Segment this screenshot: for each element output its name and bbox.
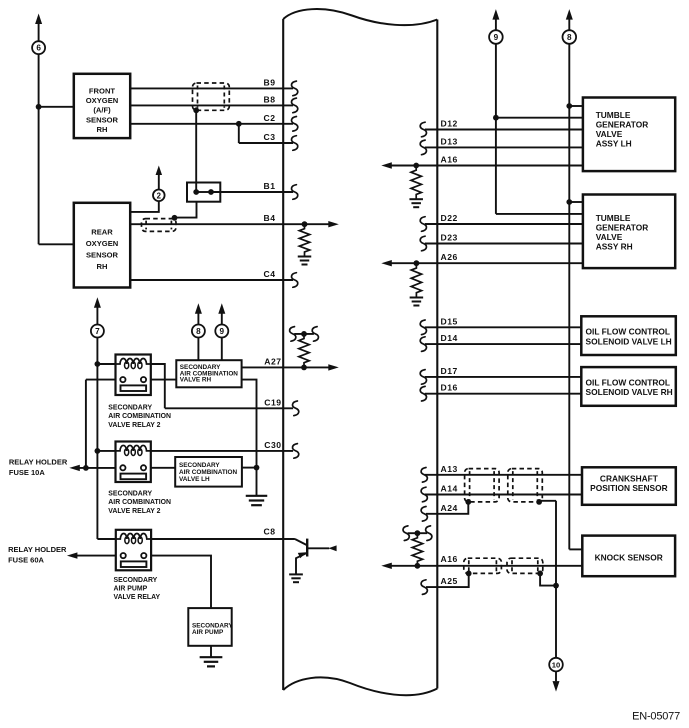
svg-text:EN-05077: EN-05077 <box>632 710 680 722</box>
ECM band torn bottom edge <box>283 677 437 695</box>
wire A16 knock <box>391 565 583 567</box>
wire break C30 <box>293 444 299 459</box>
svg-text:REAR: REAR <box>91 228 113 237</box>
svg-text:RELAY HOLDER: RELAY HOLDER <box>9 458 68 467</box>
svg-text:C4: C4 <box>264 269 276 279</box>
shield knock left <box>464 558 502 573</box>
arrow A26 (left) <box>381 260 392 266</box>
node tumble RH feed 8 <box>566 199 572 205</box>
transistor Q1 collector diagonal <box>295 539 307 545</box>
arrow A27 (right) <box>328 364 339 370</box>
arrow A16 (left) <box>381 162 392 168</box>
svg-text:OIL FLOW CONTROL: OIL FLOW CONTROL <box>586 327 671 337</box>
svg-text:FRONT: FRONT <box>89 87 116 96</box>
svg-text:9: 9 <box>494 33 499 42</box>
arrow fuse 60A (left) <box>67 552 78 558</box>
wire D15 <box>425 326 582 328</box>
circle label 2 <box>153 190 165 202</box>
wire break C3 <box>292 136 298 151</box>
wire 8 to tumble RH <box>569 201 583 203</box>
wire knock drain to 10-line <box>540 573 556 585</box>
wire C2 to C3 drop <box>238 124 240 143</box>
wire air pump to ground <box>210 646 212 657</box>
ground below B4 resistor <box>298 256 312 258</box>
oil flow control solenoid valve LH box <box>581 316 676 355</box>
arrow to 9 (up) <box>218 303 225 314</box>
svg-text:VALVE RELAY: VALVE RELAY <box>114 594 161 601</box>
node drains join <box>553 583 559 589</box>
wire D12 <box>425 129 583 131</box>
svg-text:A24: A24 <box>441 503 458 513</box>
svg-text:VALVE RH: VALVE RH <box>180 377 212 384</box>
svg-text:D17: D17 <box>441 366 458 376</box>
ECM band torn top edge <box>283 9 437 25</box>
svg-text:VALVE RELAY 2: VALVE RELAY 2 <box>108 508 160 515</box>
arrow to 8 (up) <box>195 303 202 314</box>
node crank shield drain right <box>536 499 542 505</box>
node tumble LH feed 9 <box>493 115 499 121</box>
wire 6 vertical <box>38 54 40 244</box>
oil flow control solenoid valve RH box <box>581 367 676 406</box>
svg-text:SECONDARY: SECONDARY <box>108 491 152 498</box>
node front sensor feed <box>36 104 42 110</box>
rear oxygen sensor RH box <box>74 203 130 288</box>
wire valve LH to ground node <box>242 467 257 469</box>
node knock shield drain right <box>537 571 543 577</box>
shield crank pair right <box>508 469 543 502</box>
wire A27 <box>242 366 330 368</box>
wire to relay1 coil <box>97 363 115 365</box>
svg-text:A13: A13 <box>441 464 458 474</box>
svg-text:C19: C19 <box>264 397 281 407</box>
wire C19 <box>165 407 293 409</box>
arrow B4 (right) <box>328 221 339 227</box>
transistor Q1 base wire <box>307 547 329 549</box>
node A26 pulldown <box>414 260 420 266</box>
svg-text:FUSE 60A: FUSE 60A <box>8 555 44 564</box>
svg-text:D14: D14 <box>441 333 458 343</box>
wire break A13 <box>421 468 427 483</box>
wire 8 to tumble LH <box>569 105 583 107</box>
node crank shield drain left <box>465 499 471 505</box>
wire pullup rail <box>294 333 314 335</box>
svg-text:(A/F): (A/F) <box>93 106 111 115</box>
tumble generator valve assy RH box <box>583 195 675 269</box>
circle label 6 <box>32 41 45 54</box>
node knock pullup top <box>415 530 421 536</box>
ECM harness band left edge (wire) <box>282 19 284 690</box>
shield knock right <box>507 558 543 573</box>
wire to fuse 10A <box>79 467 116 469</box>
joint internal wire <box>196 191 211 193</box>
wire 7 vertical <box>96 338 98 540</box>
svg-text:A16: A16 <box>441 155 458 165</box>
svg-text:10: 10 <box>552 661 560 670</box>
svg-text:TUMBLE: TUMBLE <box>596 110 631 120</box>
svg-text:VALVE RELAY 2: VALVE RELAY 2 <box>108 422 160 429</box>
front oxygen (A/F) sensor RH box <box>74 74 130 138</box>
wire A25 drain <box>426 573 469 587</box>
node C2/C3 split <box>236 121 242 127</box>
svg-text:KNOCK SENSOR: KNOCK SENSOR <box>595 553 663 563</box>
svg-text:A16: A16 <box>441 554 458 564</box>
ground of air pump <box>200 656 223 658</box>
wire rear sensor to 2 <box>130 201 159 212</box>
wire relay2 contact to valve LH <box>151 467 175 469</box>
wire break C2 <box>292 117 298 132</box>
arrow A16 knock (left) <box>381 563 392 569</box>
relay K3 secondary air pump valve relay <box>116 530 151 571</box>
wire B8 <box>130 104 293 106</box>
wire break A25 <box>421 580 427 595</box>
wire to fuse 60A <box>77 555 116 557</box>
secondary air combination valve LH box <box>175 457 242 487</box>
svg-text:ASSY LH: ASSY LH <box>596 139 632 149</box>
wire break C19 <box>293 401 299 416</box>
wire break D22 <box>420 217 426 232</box>
svg-text:SENSOR: SENSOR <box>86 115 119 124</box>
wire break B1 <box>292 185 298 200</box>
wire C3 <box>239 142 293 144</box>
wire D14 <box>425 343 582 345</box>
svg-text:SOLENOID VALVE LH: SOLENOID VALVE LH <box>586 336 672 346</box>
svg-text:C8: C8 <box>264 527 276 537</box>
wire A14 <box>425 494 582 496</box>
relay K2 secondary air combination valve relay 2 <box>116 442 151 483</box>
svg-text:D12: D12 <box>441 119 458 129</box>
svg-text:ASSY RH: ASSY RH <box>596 242 633 252</box>
circle label 10 <box>549 658 563 672</box>
svg-text:AIR COMBINATION: AIR COMBINATION <box>179 469 237 476</box>
arrow to 6 (up) <box>35 14 42 25</box>
wire break D16 <box>420 386 426 401</box>
wire 9 vertical <box>495 44 497 214</box>
wire B1 <box>211 191 293 193</box>
svg-text:B4: B4 <box>264 213 276 223</box>
node valves ground join <box>254 465 260 471</box>
arrow into transistor base (left) <box>328 545 336 551</box>
wire relay1 coil to C19 drop <box>151 364 165 408</box>
svg-text:TUMBLE: TUMBLE <box>596 213 631 223</box>
wire relay1 contact left <box>86 379 116 381</box>
wire D22 <box>425 223 583 225</box>
wire C30 <box>151 450 293 452</box>
svg-text:VALVE LH: VALVE LH <box>179 476 210 483</box>
circle label 9 top <box>489 30 503 44</box>
wire break D17 <box>420 370 426 385</box>
pin node right <box>208 189 214 195</box>
svg-text:AIR PUMP: AIR PUMP <box>192 629 224 636</box>
node A27 resistor <box>301 365 307 371</box>
svg-text:D13: D13 <box>441 136 458 146</box>
svg-text:OXYGEN: OXYGEN <box>86 96 119 105</box>
svg-text:SECONDARY: SECONDARY <box>179 462 220 469</box>
svg-text:POSITION SENSOR: POSITION SENSOR <box>590 483 667 493</box>
arrow to 7 (up) <box>94 297 101 308</box>
node B4 pulldown <box>302 221 308 227</box>
svg-text:C2: C2 <box>264 113 276 123</box>
wire fuse drop <box>85 380 87 468</box>
pin node left <box>193 189 199 195</box>
connector joint box <box>187 183 220 202</box>
svg-text:GENERATOR: GENERATOR <box>596 120 649 130</box>
relay K1 secondary air combination valve relay 2 <box>116 355 151 396</box>
ground below A26 resistor <box>410 297 424 299</box>
arrow to 10 (down) <box>553 681 560 692</box>
resistor A26 pulldown <box>411 263 421 297</box>
svg-text:9: 9 <box>220 327 225 336</box>
wire B9 <box>130 87 293 89</box>
wire break D12 <box>420 122 426 137</box>
wire break A24 <box>421 507 427 522</box>
ground below A16 resistor <box>409 198 423 200</box>
svg-text:8: 8 <box>567 33 572 42</box>
ECM harness band right edge (wire) <box>436 20 438 689</box>
wire break C4 <box>292 273 298 288</box>
svg-text:A26: A26 <box>441 252 458 262</box>
wire A24 drain <box>426 502 468 514</box>
shield drain wire down <box>195 110 197 192</box>
wire C2 <box>130 123 293 125</box>
svg-text:VALVE: VALVE <box>596 129 623 139</box>
svg-text:SOLENOID VALVE RH: SOLENOID VALVE RH <box>586 387 673 397</box>
svg-text:AIR COMBINATION: AIR COMBINATION <box>108 413 171 420</box>
node fuse 10A join <box>83 465 89 471</box>
svg-text:SECONDARY: SECONDARY <box>108 405 152 412</box>
svg-text:D15: D15 <box>441 316 458 326</box>
wire relay3 contact to air pump <box>151 556 211 609</box>
svg-text:8: 8 <box>196 327 201 336</box>
wire 9 to valve RH <box>221 338 223 361</box>
wire crank drain to 10-line <box>539 501 556 502</box>
node A16 knock resistor <box>415 563 421 569</box>
wire break A14 <box>421 487 427 502</box>
circle label 9 <box>215 325 228 338</box>
svg-text:FUSE 10A: FUSE 10A <box>9 468 45 477</box>
transistor Q1 base bar <box>306 539 308 557</box>
wire below circle 10 <box>555 671 557 681</box>
circle label 7 <box>91 325 104 338</box>
resistor A27 pullup <box>299 334 309 368</box>
wire A26 <box>391 262 583 264</box>
wire break B9 <box>292 81 298 96</box>
ground of transistor <box>289 573 303 575</box>
svg-text:A25: A25 <box>441 576 458 586</box>
wire D23 <box>425 243 583 245</box>
arrow fuse 10A (left) <box>69 465 80 471</box>
wire to rear oxygen sensor <box>39 243 74 245</box>
svg-text:2: 2 <box>157 191 162 200</box>
crankshaft position sensor box <box>582 467 676 505</box>
node shield drain B8 <box>193 107 199 113</box>
wire valve RH lower to ground drop <box>242 380 257 496</box>
wire 8 to valve RH <box>197 338 199 361</box>
transistor Q1 emitter arrow <box>298 552 307 558</box>
svg-text:7: 7 <box>95 327 100 336</box>
svg-text:RH: RH <box>97 262 108 271</box>
circle label 8 <box>192 325 205 338</box>
svg-text:D23: D23 <box>441 233 458 243</box>
svg-text:A27: A27 <box>264 356 281 366</box>
wire A13 <box>425 474 582 476</box>
wire break knock rail left <box>403 526 409 541</box>
wire B4 <box>130 223 329 225</box>
node knock shield drain left <box>466 571 472 577</box>
wire break rail right <box>312 327 318 342</box>
svg-text:A14: A14 <box>441 484 458 494</box>
transistor Q1 emitter <box>296 553 307 574</box>
arrow to 9 top (up) <box>492 9 499 20</box>
svg-text:6: 6 <box>36 44 41 53</box>
resistor A16 pulldown <box>411 166 421 200</box>
node A27 pullup top <box>301 331 307 337</box>
tumble generator valve assy LH box <box>583 98 675 172</box>
arrow to 8 top (up) <box>566 9 573 20</box>
wire A16 tumble <box>391 165 583 167</box>
svg-text:D16: D16 <box>441 383 458 393</box>
svg-text:RH: RH <box>97 125 108 134</box>
resistor A16 knock pullup <box>412 533 422 566</box>
wire 8 vertical <box>568 44 570 550</box>
svg-text:B8: B8 <box>264 94 276 104</box>
svg-text:RELAY HOLDER: RELAY HOLDER <box>8 545 67 554</box>
wire D16 <box>425 393 582 395</box>
shield drain below joint <box>175 202 197 218</box>
ground of valves <box>246 495 268 497</box>
wire break D15 <box>420 320 426 335</box>
svg-text:B1: B1 <box>264 181 276 191</box>
wire 9 to tumble RH <box>496 213 583 215</box>
wire relay1 contact to valve RH <box>151 379 177 381</box>
wire C8 <box>151 538 295 540</box>
wire C30 through relay2 coil <box>97 450 115 452</box>
knock sensor box <box>582 536 675 577</box>
wire break D13 <box>420 140 426 155</box>
svg-text:C30: C30 <box>264 440 281 450</box>
node A16 pulldown <box>413 163 419 169</box>
wire knock pullup rail <box>408 532 428 534</box>
wire D17 <box>425 376 582 378</box>
wire 9 to tumble LH <box>496 117 583 119</box>
svg-text:AIR COMBINATION: AIR COMBINATION <box>108 499 171 506</box>
shield around B9/B8 <box>193 83 230 110</box>
svg-text:GENERATOR: GENERATOR <box>596 223 649 233</box>
node relay1 coil feed <box>95 361 101 367</box>
svg-text:SECONDARY: SECONDARY <box>114 577 158 584</box>
wire break rail left <box>290 327 296 342</box>
svg-text:OIL FLOW CONTROL: OIL FLOW CONTROL <box>586 378 671 388</box>
node rear shield drain <box>172 215 178 221</box>
resistor at B4 <box>299 224 309 256</box>
wire 10 vertical <box>555 501 557 658</box>
svg-text:VALVE: VALVE <box>596 232 623 242</box>
wire break knock rail right <box>426 526 432 541</box>
node tumble LH feed 8 <box>566 103 572 109</box>
shield around B4 wire <box>142 219 177 232</box>
svg-text:B9: B9 <box>264 77 276 87</box>
secondary air combination valve RH box <box>176 360 241 387</box>
wire C4 <box>130 279 293 281</box>
wire 7 to relay3 coil <box>97 538 115 540</box>
arrow to 2 (up) <box>156 166 163 176</box>
svg-text:CRANKSHAFT: CRANKSHAFT <box>600 474 658 484</box>
svg-text:OXYGEN: OXYGEN <box>86 239 119 248</box>
node relay2 coil feed <box>95 448 101 454</box>
wire D13 <box>425 146 583 148</box>
wire break B8 <box>292 98 298 113</box>
svg-text:C3: C3 <box>264 132 276 142</box>
wire break D14 <box>420 337 426 352</box>
wire to front oxygen sensor <box>39 106 74 108</box>
svg-text:D22: D22 <box>441 213 458 223</box>
svg-text:SENSOR: SENSOR <box>86 251 119 260</box>
circle label 8 top <box>563 30 577 44</box>
svg-text:AIR PUMP: AIR PUMP <box>114 586 148 593</box>
wire break D23 <box>420 236 426 251</box>
wire 8 line to knock sensor <box>569 548 582 550</box>
shield crank pair left <box>465 469 500 502</box>
secondary air pump box <box>188 608 231 646</box>
